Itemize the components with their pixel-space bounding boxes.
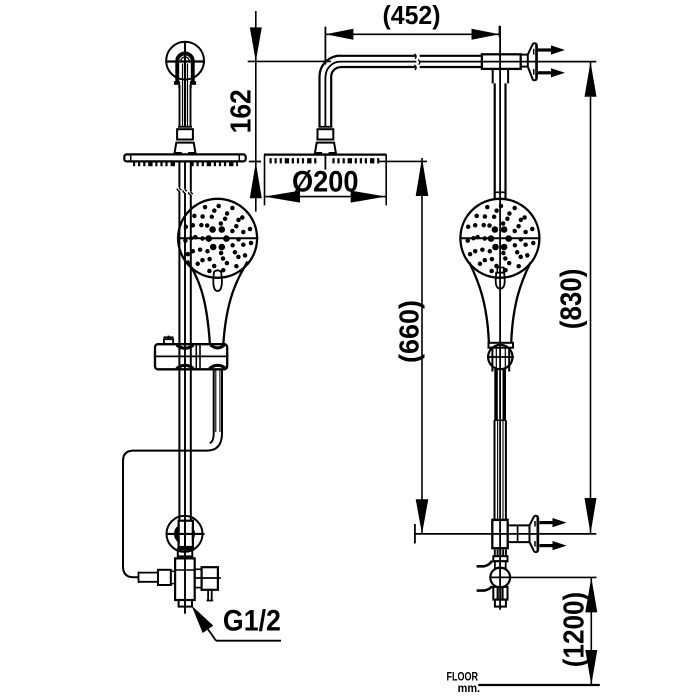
- svg-text:G1/2: G1/2: [223, 604, 281, 637]
- svg-text:(452): (452): [383, 0, 441, 30]
- svg-text:(660): (660): [394, 300, 425, 363]
- svg-text:mm.: mm.: [458, 681, 481, 695]
- svg-text:Ø200: Ø200: [292, 166, 359, 199]
- svg-text:162: 162: [226, 89, 258, 133]
- svg-text:(830): (830): [555, 269, 588, 330]
- svg-text:(1200): (1200): [558, 592, 590, 668]
